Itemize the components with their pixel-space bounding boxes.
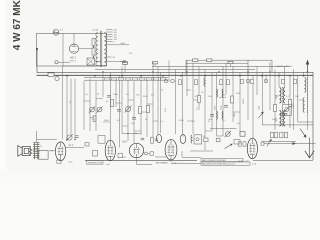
- svg-text:SÄMTL.SPULEN V.VORN GES.: SÄMTL.SPULEN V.VORN GES.: [202, 159, 227, 162]
- contact box between tube V2 and V3: [118, 153, 123, 158]
- wire to legend box 2: [171, 163, 201, 165]
- cathode bus bottom: [85, 159, 197, 161]
- wire vertical x116: [115, 79, 117, 107]
- components row under bus: [105, 78, 109, 80]
- svg-text:100: 100: [293, 105, 295, 108]
- wire vertical x141: [140, 76, 142, 135]
- tube V4: [165, 139, 177, 160]
- ground arrow bottom right: [309, 138, 311, 158]
- switch arrow mid: [225, 144, 232, 148]
- wire under tube V4: [155, 156, 166, 158]
- wire vertical x223: [222, 66, 224, 136]
- caps above right wire a: [280, 113, 283, 115]
- wire vertical x75: [74, 79, 76, 140]
- svg-text:4 W 67 MK: 4 W 67 MK: [12, 0, 23, 50]
- rung wire 0: [84, 100, 90, 102]
- wire lamp to core: [95, 61, 101, 63]
- rung wire 8: [134, 130, 141, 132]
- switch arrow right of tube V5: [267, 140, 271, 146]
- wire rectifier to transformer: [79, 48, 92, 50]
- tube V2 AL4 big: [105, 140, 115, 161]
- IF transformer 1 core: [281, 87, 283, 104]
- box comp right of tube V3: [150, 152, 154, 156]
- oscillator coil small: [191, 135, 192, 143]
- wire vertical x122: [121, 66, 123, 133]
- wire under tube V3: [136, 158, 138, 165]
- speaker connection box: [39, 151, 49, 160]
- bottom wire right: [253, 159, 313, 161]
- output transformer winding: [33, 142, 40, 144]
- rung wire 7: [141, 111, 147, 113]
- bus line 1: [37, 71, 314, 73]
- svg-text:AL4: AL4: [122, 140, 127, 144]
- svg-text:5000: 5000: [276, 95, 278, 99]
- label gemeinsch kat: [87, 161, 104, 164]
- svg-text:0,5: 0,5: [209, 119, 211, 122]
- contact comp x218: [216, 138, 220, 142]
- bus line 5: [95, 69, 255, 71]
- antenna box outline: [297, 75, 299, 122]
- wire vertical x84: [83, 81, 85, 130]
- wire vertical x279: [278, 72, 280, 87]
- component on bus line 7 right: [207, 59, 212, 62]
- component near x125 on upper line: [123, 62, 128, 64]
- wire transformer bottom to bus: [96, 65, 106, 67]
- small rect pair left of tube V5 b: [243, 142, 246, 146]
- series resistor on bus 1: [48, 73, 54, 76]
- antenna coil bottom: [303, 98, 304, 113]
- wire vertical x257: [256, 66, 258, 95]
- svg-text:GEMEINSCH.KAT.: GEMEINSCH.KAT.: [87, 162, 103, 165]
- wire y151 mid: [190, 150, 213, 152]
- wire vertical x153: [152, 62, 154, 138]
- antenna coil core: [307, 77, 309, 113]
- HT tap wire: [106, 44, 129, 46]
- junction dots on buses: [66, 75, 68, 77]
- small circle component in mains box: [55, 61, 58, 64]
- bus line 6: [152, 65, 290, 67]
- contact boxes row right d: [284, 132, 287, 138]
- wire vertical x182.5: [182, 72, 184, 134]
- junction dots near tube V1: [66, 139, 67, 140]
- rectifier tube AZ1: [69, 44, 78, 53]
- wire vertical x103: [102, 72, 104, 97]
- rung wire 6: [122, 125, 128, 127]
- switch arrow right: [259, 113, 264, 118]
- rail joint wire: [217, 135, 224, 137]
- power transformer secondary winding: [104, 33, 106, 67]
- mains plug arrow: [36, 48, 38, 72]
- rung wire 9: [147, 103, 153, 105]
- long wire y143.5 right: [264, 143, 316, 145]
- component on bus 6 left: [153, 62, 158, 64]
- rung wire 16: [187, 120, 193, 122]
- bus line 7: [186, 59, 272, 61]
- contact boxes row right a: [270, 132, 273, 138]
- small box left of tube V5: [240, 132, 245, 137]
- legend box 1: [201, 159, 243, 162]
- bus line 8: [186, 62, 248, 64]
- svg-text:GITT.: GITT.: [122, 157, 127, 159]
- wire tube V1 right to comb: [66, 147, 84, 149]
- rung wire 1: [96, 98, 103, 100]
- wire vertical x90: [89, 79, 91, 131]
- svg-text:1 μF: 1 μF: [106, 164, 111, 166]
- heater taps: [106, 56, 112, 58]
- capacitor near tube V3 top: [141, 137, 145, 139]
- small rect pair left of tube V5 a: [238, 142, 241, 146]
- rung wire 2: [116, 102, 122, 104]
- IF transformer 2 left coil: [280, 111, 282, 127]
- right edge long wire: [312, 72, 314, 160]
- tube V5 ACH1: [247, 138, 257, 159]
- resistor right of tube V3: [151, 137, 154, 143]
- box under tube V1: [57, 160, 61, 163]
- power transformer primary winding: [96, 33, 98, 67]
- white rect x92 y150: [93, 151, 98, 157]
- wire output transformer up: [36, 131, 38, 142]
- trimmer near x228: [225, 132, 230, 137]
- wire vertical x233: [232, 66, 234, 122]
- oscillator box: [194, 135, 202, 144]
- wire vertical x193: [192, 63, 194, 134]
- contact box x234: [234, 140, 240, 145]
- wire vertical x119.6: [119, 76, 121, 148]
- rung wire 4: [90, 117, 96, 119]
- wire vertical x134: [133, 81, 135, 143]
- bus line 2 main HT: [37, 74, 314, 76]
- dial lamp: [87, 58, 95, 65]
- loudspeaker magnet box: [22, 146, 30, 155]
- svg-text:10000: 10000: [243, 99, 245, 104]
- IF transformer 1 left coil: [280, 88, 282, 104]
- wire vertical x205: [204, 69, 206, 150]
- wire vertical x158: [157, 66, 159, 134]
- wire vertical x96: [95, 81, 97, 131]
- wire vertical x307.5: [307, 72, 309, 130]
- trimmer capacitor row: [90, 107, 95, 112]
- svg-text:DRAHTL.GRÜ.47: DRAHTL.GRÜ.47: [276, 65, 293, 68]
- IF coil mid A1: [216, 89, 219, 97]
- voice coil zigzag: [29, 148, 33, 154]
- resistors mid band: [93, 116, 96, 122]
- wire vertical x110.3: [109, 72, 111, 140]
- tube V3 round: [129, 143, 143, 157]
- box left of tube V2: [98, 136, 105, 144]
- contact box right of tube V1: [85, 143, 89, 147]
- wire vertical x67: [66, 76, 68, 140]
- capacitor right of tube V3: [155, 138, 158, 140]
- wire y139.5 to tube V1: [37, 139, 57, 141]
- component on bus 6 right: [228, 61, 233, 63]
- wire vertical x270: [269, 62, 271, 110]
- svg-text:S.0,3A: S.0,3A: [92, 29, 99, 32]
- wire vertical x262.7: [262, 72, 264, 125]
- wire vertical x199: [198, 66, 200, 110]
- caps above right wire b: [284, 113, 287, 115]
- bus line 3: [84, 77, 168, 79]
- svg-text:1000: 1000: [259, 106, 261, 110]
- wire vertical x216.5: [216, 72, 218, 136]
- wire vertical x253: [252, 76, 254, 138]
- antenna coil top: [305, 78, 306, 93]
- svg-text:0,25: 0,25: [165, 108, 167, 112]
- wire vertical x169: [168, 60, 170, 82]
- wire y133.5 above tube V3: [122, 133, 141, 135]
- rung wire 11: [219, 97, 226, 99]
- IF coil mid B2: [221, 111, 224, 119]
- svg-text:30: 30: [203, 136, 205, 138]
- electrolytic capacitor left of tube4: [156, 134, 161, 142]
- wire vertical x266: [265, 76, 267, 83]
- ladder end verticals: [185, 60, 187, 75]
- wire into tube V1 left: [49, 150, 56, 152]
- contact comp x205: [204, 138, 208, 142]
- wire vertical x187: [186, 60, 188, 96]
- capacitors mid band: [107, 95, 111, 97]
- electrolytic capacitor A right of tube4: [180, 135, 186, 144]
- svg-text:5000: 5000: [234, 113, 236, 117]
- rung wire 5: [103, 121, 110, 123]
- contact box right of tube V5: [261, 142, 264, 145]
- svg-text:5000: 5000: [276, 118, 278, 122]
- svg-text:AZ 1: AZ 1: [70, 55, 76, 59]
- wire vertical x226: [225, 63, 227, 95]
- wire vertical x160.5: [160, 72, 162, 133]
- contact boxes row right b: [274, 132, 277, 138]
- circle comp right of tube V3: [145, 152, 148, 155]
- wire vertical x212: [211, 72, 213, 131]
- capacitor C block in mains box: [92, 39, 95, 46]
- IF transformer 1 right coil: [283, 88, 285, 104]
- svg-text:~505 V: ~505 V: [69, 61, 77, 63]
- wire into oval A: [182, 135, 184, 137]
- svg-text:1 μF: 1 μF: [252, 163, 257, 165]
- wire to legend box 1: [182, 156, 201, 158]
- secondary taps: [106, 29, 113, 31]
- wire vertical x284.5: [284, 66, 286, 87]
- rung wire 15: [153, 120, 158, 122]
- wire vertical x293.5: [293, 69, 295, 130]
- wire vertical x71: [70, 79, 72, 135]
- wire y124.9 right: [262, 124, 313, 126]
- svg-text:WELLENSCH.VON VORN GES.(2.U.3.: WELLENSCH.VON VORN GES.(2.U.3.ST.): [202, 164, 235, 166]
- choke coil x205: [204, 78, 205, 87]
- IF transformer 2 right coil: [283, 111, 285, 127]
- wire vertical x275: [274, 69, 276, 130]
- rung wire 18: [233, 111, 240, 113]
- loudspeaker cone: [18, 146, 22, 157]
- tube V1 output AL4: [55, 142, 65, 161]
- wire vertical x147: [146, 79, 148, 137]
- right trimmer box: [283, 105, 292, 116]
- rung wire 10: [193, 99, 199, 101]
- circle comp on bus x57: [55, 77, 59, 81]
- bus line 4: [84, 79, 168, 81]
- svg-text:ABSTIMMANZ.: ABSTIMMANZ.: [156, 161, 169, 164]
- mains box outline: [37, 33, 107, 66]
- wire y128 mid right: [210, 128, 237, 130]
- svg-text:0,1: 0,1: [197, 107, 199, 110]
- wire vertical x303.5: [303, 72, 305, 76]
- wire vertical x240: [239, 72, 241, 133]
- svg-text:AL 4: AL 4: [69, 144, 74, 147]
- wire y141.4 right: [262, 140, 296, 142]
- IF transformer 2 core: [281, 110, 283, 127]
- paper background: [0, 0, 320, 185]
- rung wire 17: [205, 130, 212, 132]
- wire vertical x290: [289, 76, 291, 128]
- IF coil mid A2: [221, 89, 224, 97]
- loop symbol on transformer wire: [120, 61, 128, 63]
- svg-text:0,5: 0,5: [70, 100, 72, 103]
- component on bus line 7 left: [193, 59, 198, 62]
- trimmer above tube V1: [67, 135, 72, 140]
- legend box 2: [201, 162, 250, 165]
- wire vertical x248: [247, 69, 249, 120]
- rung wire 12: [275, 95, 279, 97]
- power transformer core: [99, 31, 101, 67]
- wire vertical x128: [127, 79, 129, 141]
- junction dots in mains box: [93, 46, 95, 48]
- IF coil mid B1: [216, 111, 219, 119]
- rung wire 14: [299, 99, 304, 101]
- rung wire 3: [128, 99, 134, 101]
- capacitor above tube V1: [75, 135, 79, 137]
- wire vertical x62.5: [62, 66, 64, 140]
- contact boxes row right c: [280, 132, 283, 138]
- arrow on wire y143.5: [293, 142, 296, 145]
- antenna arrow top right: [307, 63, 309, 72]
- fuse F1: [53, 29, 59, 35]
- rung wire 13: [290, 103, 294, 105]
- ladder drop x272: [271, 60, 273, 72]
- wire vertical x175.5: [175, 70, 177, 135]
- diagonal arrow wave switch: [300, 129, 305, 136]
